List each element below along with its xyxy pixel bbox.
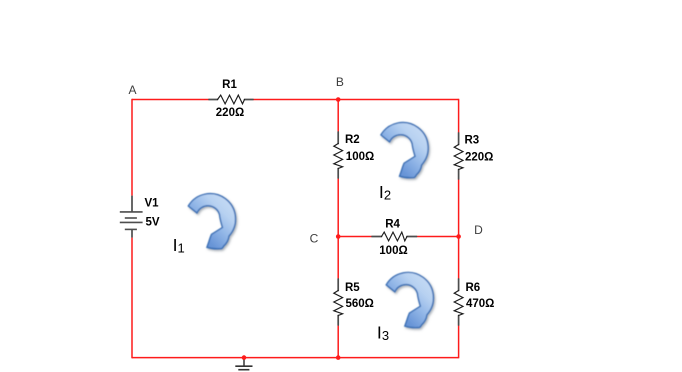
ground (235, 358, 252, 370)
resistor R4 (372, 232, 417, 241)
resistor R3 (454, 133, 463, 179)
svg-text:A: A (128, 83, 136, 97)
wire right column: R6 to bottom-right corner (458, 325, 460, 358)
svg-text:D: D (474, 223, 483, 237)
svg-text:I2: I2 (379, 182, 391, 202)
svg-text:B: B (336, 75, 344, 89)
mesh current arrow I3 (386, 272, 433, 327)
resistor R6 (454, 279, 463, 325)
wire right column: R3 to D (458, 179, 460, 237)
node B junction dot (336, 97, 341, 102)
svg-text:R1: R1 (222, 79, 237, 91)
svg-text:R6: R6 (466, 282, 481, 294)
wire middle column: C to R5 (337, 237, 339, 280)
mesh current arrow I1 (188, 194, 235, 249)
svg-text:100Ω: 100Ω (379, 245, 407, 257)
svg-text:V1: V1 (145, 197, 160, 209)
wire top: R1 to B to top-right corner (253, 99, 459, 101)
wire middle column: R2 to C (337, 178, 339, 237)
battery V1 (120, 196, 143, 238)
svg-text:I1: I1 (173, 235, 185, 255)
node C junction dot (336, 234, 341, 239)
svg-text:220Ω: 220Ω (216, 107, 244, 119)
mesh current arrow I2 (381, 123, 428, 178)
bottom middle junction dot (336, 355, 341, 360)
resistor R1 (209, 95, 253, 104)
wire middle column: B to R2 (337, 100, 339, 133)
wire middle column: R5 to bottom (337, 325, 339, 358)
wire left column lower: V1 to bottom-left corner (131, 238, 133, 359)
ground junction dot (242, 355, 247, 360)
wire middle row: C to R4 (338, 236, 372, 238)
svg-text:R5: R5 (345, 282, 360, 294)
resistor R5 (334, 279, 343, 325)
svg-text:I3: I3 (377, 323, 389, 343)
node D junction dot (456, 234, 461, 239)
resistor R2 (334, 132, 343, 178)
svg-text:560Ω: 560Ω (346, 298, 374, 310)
svg-text:470Ω: 470Ω (466, 298, 494, 310)
svg-text:R2: R2 (345, 134, 360, 146)
svg-text:220Ω: 220Ω (465, 152, 493, 164)
wire right column: D to R6 (458, 237, 460, 280)
wire right column: corner to R3 (458, 99, 460, 133)
wire top: A to R1 (132, 99, 209, 101)
svg-text:5V: 5V (146, 217, 160, 229)
svg-text:C: C (310, 231, 319, 245)
wire bottom: left corner to right corner (132, 357, 459, 359)
svg-text:R4: R4 (385, 219, 400, 231)
svg-text:R3: R3 (465, 135, 480, 147)
wire left column upper: A to V1 (131, 99, 133, 196)
svg-text:100Ω: 100Ω (346, 151, 374, 163)
wire middle row: R4 to D (417, 236, 459, 238)
